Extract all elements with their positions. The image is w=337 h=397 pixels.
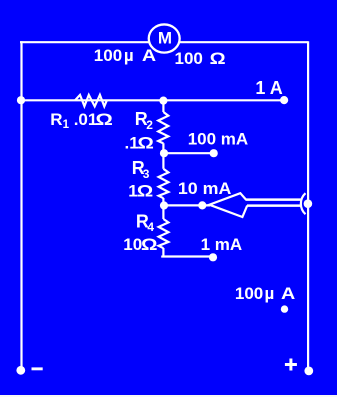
svg-text:1 A: 1 A	[255, 78, 282, 98]
svg-text:100 Ω: 100 Ω	[175, 49, 226, 68]
svg-text:10 mA: 10 mA	[178, 179, 232, 198]
svg-text:.1Ω: .1Ω	[125, 133, 154, 152]
svg-text:100 mA: 100 mA	[188, 130, 248, 149]
svg-text:100 µ A: 100 µ A	[94, 46, 156, 65]
svg-text:M: M	[158, 29, 172, 48]
svg-text:1Ω: 1Ω	[128, 181, 153, 200]
svg-text:100 µ A: 100 µ A	[235, 284, 295, 303]
svg-text:R1 .01Ω: R1 .01Ω	[50, 110, 113, 131]
svg-text:1 mA: 1 mA	[201, 235, 243, 254]
svg-text:10Ω: 10Ω	[123, 235, 157, 254]
